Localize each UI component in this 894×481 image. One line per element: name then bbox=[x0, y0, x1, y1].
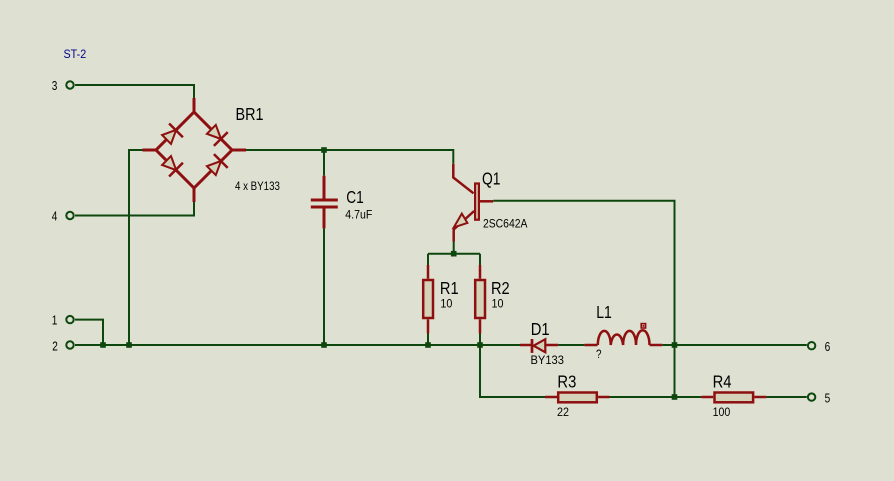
svg-text:R3: R3 bbox=[557, 372, 576, 392]
junction L1 output bbox=[672, 342, 678, 348]
svg-text:5: 5 bbox=[825, 391, 831, 406]
wire bridge left corner down to rail bbox=[129, 150, 143, 345]
stub bottom bbox=[193, 188, 196, 202]
svg-text:R1: R1 bbox=[440, 278, 459, 298]
svg-text:L1: L1 bbox=[596, 302, 612, 322]
emitter lead bbox=[454, 211, 474, 242]
stub right bbox=[232, 149, 246, 152]
collector lead bbox=[453, 164, 473, 194]
transistor Q1 bbox=[453, 164, 493, 242]
diode bottom-left bbox=[162, 156, 176, 170]
svg-text:4 x BY133: 4 x BY133 bbox=[235, 181, 280, 193]
pin 2 bbox=[52, 339, 74, 354]
wire bottom rail pin2 to D1 bbox=[75, 344, 520, 346]
pin 3 bbox=[52, 78, 74, 93]
base bar bbox=[475, 184, 479, 220]
stub top bbox=[193, 98, 196, 112]
wire L1 to pin 6 bbox=[662, 344, 807, 346]
wire pin3 to bridge top bbox=[75, 85, 194, 98]
bridge rectifier BR1 bbox=[143, 98, 247, 202]
diamond outline bbox=[156, 112, 232, 188]
wire R3 to R4 bbox=[610, 396, 702, 398]
wire D1 to L1 bbox=[558, 344, 584, 346]
svg-text:R2: R2 bbox=[491, 278, 510, 298]
pin 5 bbox=[808, 391, 830, 406]
inductor L1 bbox=[584, 324, 662, 345]
wire base feedback vertical bbox=[493, 201, 674, 397]
resistor R1 bbox=[423, 265, 433, 345]
svg-text:Q1: Q1 bbox=[482, 168, 501, 188]
svg-text:D1: D1 bbox=[531, 319, 550, 339]
wire top rail bridge to collector bbox=[246, 150, 453, 164]
winding dot marker bbox=[641, 324, 645, 328]
svg-text:1: 1 bbox=[52, 313, 58, 328]
svg-text:BY133: BY133 bbox=[531, 355, 564, 367]
pin 4 bbox=[52, 208, 74, 223]
svg-text:?: ? bbox=[596, 349, 602, 361]
wire pin4 to bridge bottom bbox=[75, 202, 194, 216]
pin 1 bbox=[52, 313, 74, 328]
pin 6 bbox=[808, 339, 830, 354]
svg-text:C1: C1 bbox=[346, 187, 364, 207]
junction R1 bottom bbox=[425, 342, 431, 348]
diode D1 bbox=[520, 339, 558, 353]
junction emitter node bbox=[451, 251, 457, 257]
svg-text:ST-2: ST-2 bbox=[64, 47, 87, 61]
stub left bbox=[143, 149, 157, 152]
svg-text:10: 10 bbox=[492, 299, 504, 311]
diode top-right bbox=[207, 125, 221, 139]
diode bottom-right bbox=[207, 161, 221, 175]
junction R2 bottom bbox=[477, 342, 483, 348]
base lead bbox=[480, 200, 493, 203]
wire pin1 to ground rail bbox=[75, 320, 103, 345]
svg-text:4.7uF: 4.7uF bbox=[345, 209, 372, 221]
svg-text:2SC642A: 2SC642A bbox=[483, 219, 528, 231]
svg-text:4: 4 bbox=[52, 208, 58, 223]
svg-text:22: 22 bbox=[557, 407, 569, 419]
svg-text:6: 6 bbox=[825, 339, 831, 354]
svg-text:BR1: BR1 bbox=[236, 104, 264, 124]
capacitor C1 bbox=[311, 150, 338, 345]
junction C1 top bbox=[321, 147, 327, 153]
svg-text:10: 10 bbox=[440, 299, 452, 311]
junction feedback/R3 row bbox=[672, 394, 678, 400]
wire emitter to R1 R2 bbox=[428, 242, 480, 266]
svg-text:3: 3 bbox=[52, 78, 58, 93]
svg-text:2: 2 bbox=[52, 339, 58, 354]
wire R4 to pin 5 bbox=[766, 396, 806, 398]
svg-text:R4: R4 bbox=[713, 372, 732, 392]
emitter arrow bbox=[454, 214, 468, 228]
resistor R4 bbox=[701, 393, 766, 403]
resistor R3 bbox=[545, 393, 610, 403]
diode top-left bbox=[162, 130, 176, 144]
wire R2 junction down to R3 row bbox=[480, 345, 545, 397]
resistor R2 bbox=[475, 265, 485, 345]
junction pin1/rail bbox=[100, 342, 106, 348]
junction bridge-left/rail bbox=[126, 342, 132, 348]
junction C1 bottom bbox=[321, 342, 327, 348]
svg-text:100: 100 bbox=[713, 407, 731, 419]
